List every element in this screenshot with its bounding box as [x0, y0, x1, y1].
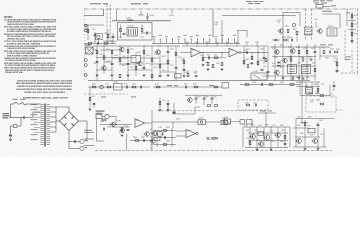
- svg-text:R115: R115: [322, 48, 326, 50]
- svg-text:100: 100: [308, 57, 312, 59]
- bottom of right block parts: [292, 77, 309, 80]
- svg-text:R510: R510: [124, 84, 128, 86]
- svg-text:LISTENING LEVEL USING VTVM DC: LISTENING LEVEL USING VTVM DC CIRCUIT BO…: [24, 91, 65, 94]
- dashed box mid lower: [238, 100, 268, 110]
- headphone jack boxes: [152, 118, 228, 129]
- left small branch under y87: [89, 87, 137, 111]
- vertical feed x302: [301, 66, 303, 124]
- svg-text:SIGNAL INPUT AND: SIGNAL INPUT AND: [5, 71, 23, 74]
- preamp rail low: [88, 80, 258, 82]
- preamp parts grid: [93, 45, 182, 76]
- svg-text:C18: C18: [160, 134, 164, 136]
- svg-text:C305: C305: [100, 121, 104, 123]
- svg-text:CONTROLS SET AT NORMAL LISTENI: CONTROLS SET AT NORMAL LISTENING LEVEL U…: [17, 79, 72, 82]
- svg-text:R22: R22: [166, 141, 170, 143]
- preamp rail top: [93, 45, 180, 47]
- svg-text:R115: R115: [192, 50, 196, 52]
- svg-text:47uF: 47uF: [176, 119, 180, 121]
- bridge rectifier D2: [60, 112, 79, 131]
- mid bottom small parts: [185, 70, 197, 77]
- output transistor Q7: [275, 50, 279, 54]
- muting transistor Q13: [188, 98, 192, 102]
- svg-text:R510: R510: [260, 60, 264, 62]
- output transistor Q9: [283, 58, 287, 62]
- warning paragraph text: [16, 79, 72, 94]
- svg-text:R22: R22: [184, 84, 188, 86]
- ac line input label: [3, 113, 10, 118]
- svg-text:R115: R115: [270, 131, 273, 133]
- svg-text:330: 330: [316, 100, 320, 102]
- right upper parts: [285, 23, 298, 42]
- board interface box: [305, 27, 313, 35]
- wire bridge output positive: [79, 121, 88, 142]
- svg-text:C18: C18: [303, 48, 307, 50]
- small parts under tuner: [104, 40, 117, 43]
- svg-text:C12: C12: [253, 103, 256, 105]
- board boundary dashed vertical left: [106, 5, 108, 43]
- svg-text:0.01: 0.01: [310, 135, 314, 137]
- protect dashed box right: [306, 96, 336, 112]
- board boundary dashed vertical right: [305, 9, 307, 40]
- op-amp U4: [176, 130, 198, 138]
- svg-text:47uF: 47uF: [162, 70, 166, 72]
- bottom board boundary dashed: [95, 150, 332, 152]
- op-amp U1: [191, 48, 201, 57]
- preamp rail mid: [96, 57, 136, 59]
- end tick x302: [300, 122, 308, 124]
- feed boxes mid: [240, 120, 252, 128]
- wire top feed bottom right: [258, 111, 276, 128]
- power amp lower cluster rails: [243, 127, 290, 148]
- wire y95 mid: [185, 94, 222, 96]
- svg-text:R22: R22: [285, 26, 289, 28]
- svg-text:R22: R22: [162, 56, 166, 58]
- op-amp U1 output wire: [201, 52, 230, 54]
- tuner left internal parts: [118, 25, 125, 39]
- bottom left lower parts: [130, 131, 163, 142]
- transformer T1 secondary winding: [47, 105, 50, 145]
- svg-text:OTHERWISE NOTED VALUES SHOWN W: OTHERWISE NOTED VALUES SHOWN WITH VOLTAG…: [17, 85, 72, 88]
- output jack labels top middle: [246, 1, 264, 4]
- svg-text:C41: C41: [333, 61, 337, 63]
- op-amp U2 output parts: [241, 50, 268, 65]
- feedback parts U1: [200, 52, 226, 71]
- wire fm line top: [112, 20, 171, 22]
- transistor Q20: [121, 129, 125, 133]
- svg-text:100: 100: [244, 125, 248, 127]
- dc output terminal E1: [80, 139, 88, 143]
- coupling caps trio: [195, 95, 217, 104]
- right upper loop wires: [277, 13, 300, 45]
- output block rails: [262, 47, 330, 76]
- feed box small left: [224, 117, 240, 124]
- protect box contents: [310, 100, 324, 105]
- svg-text:0.022: 0.022: [246, 130, 249, 132]
- svg-text:D103: D103: [299, 57, 303, 59]
- svg-text:47uF: 47uF: [354, 33, 358, 35]
- vertical feed wire: [212, 10, 214, 38]
- svg-text:C41: C41: [258, 125, 262, 127]
- svg-text:Q201: Q201: [272, 48, 276, 50]
- power amp verticals: [250, 127, 285, 148]
- svg-text:0.01: 0.01: [154, 67, 158, 69]
- svg-text:C18: C18: [128, 25, 134, 27]
- svg-text:C41: C41: [277, 22, 280, 24]
- svg-text:SL-3200: SL-3200: [207, 135, 219, 140]
- right upper bottom row parts: [272, 37, 294, 41]
- dashed interconnect line mid: [157, 110, 270, 112]
- svg-text:C305: C305: [319, 120, 323, 122]
- bias diode pair: [278, 61, 281, 67]
- preamp transistor Q1: [120, 47, 124, 51]
- output transistor Q10: [275, 70, 279, 74]
- output network cluster 2: [293, 117, 326, 151]
- tone cluster extra parts: [247, 46, 269, 78]
- svg-text:R115: R115: [166, 127, 170, 129]
- right upper wire and label: [314, 11, 340, 28]
- svg-text:R22: R22: [130, 67, 134, 69]
- svg-text:C305: C305: [249, 63, 252, 65]
- svg-text:C41: C41: [296, 77, 299, 79]
- svg-text:R401: R401: [181, 59, 184, 61]
- signal wire y87: [88, 86, 150, 88]
- svg-text:POWER SUPPLY AND DIAL LAMP CIR: POWER SUPPLY AND DIAL LAMP CIRCUIT: [23, 97, 69, 100]
- svg-text:IN OHMS K OHMS UNLESS OTHERWIS: IN OHMS K OHMS UNLESS OTHERWISE NOTED VA…: [7, 30, 51, 33]
- diode D1 surge: [9, 133, 12, 139]
- wire mid vertical x238: [237, 31, 239, 44]
- capacitor C3 trimmer: [147, 13, 154, 21]
- svg-text:C305: C305: [150, 15, 154, 17]
- corner wire mid: [237, 31, 247, 38]
- svg-text:Q201: Q201: [200, 55, 203, 57]
- power transistor Q18: [276, 133, 281, 138]
- driver box B2: [302, 65, 311, 74]
- svg-text:C305: C305: [297, 125, 301, 127]
- svg-text:330: 330: [92, 84, 96, 86]
- right upper transistor Q6: [318, 29, 322, 33]
- relay box: [305, 86, 313, 95]
- rails right upper y82: [296, 82, 325, 94]
- svg-text:0.022: 0.022: [92, 96, 96, 98]
- preamp hanging parts above low rail: [119, 74, 161, 77]
- power switch S1: [13, 99, 18, 104]
- parts row on y87 left: [92, 82, 142, 91]
- chassis dash-dot corner right: [346, 9, 348, 26]
- svg-text:R401: R401: [205, 97, 208, 99]
- svg-text:C41: C41: [246, 49, 250, 51]
- output block verticals: [275, 44, 315, 81]
- svg-text:C305: C305: [325, 58, 329, 60]
- svg-text:D103: D103: [287, 57, 291, 59]
- bottom left wires: [97, 110, 153, 151]
- svg-text:R115: R115: [288, 47, 292, 49]
- svg-text:330: 330: [254, 130, 257, 132]
- preamp transistor Q3: [156, 50, 160, 54]
- board boundary dashed vertical left2: [109, 5, 111, 43]
- meter amp cluster: [149, 127, 176, 147]
- chassis boundary dash-dot line top: [84, 8, 358, 10]
- svg-text:0.022: 0.022: [132, 84, 136, 86]
- fuse F1: [18, 99, 27, 105]
- dashed box mid contents: [245, 103, 257, 107]
- tuner block internals dark: [127, 25, 138, 36]
- svg-text:R510: R510: [274, 57, 278, 59]
- wire antenna input horizontal: [84, 10, 104, 16]
- rail y80.5 right extension: [258, 80, 310, 82]
- right dashed area lines: [333, 30, 358, 73]
- svg-text:47uF: 47uF: [113, 41, 117, 43]
- wire to transformer primary top: [27, 103, 41, 105]
- antenna terminal labels top left: [90, 3, 148, 4]
- wire ac hot: [11, 103, 15, 105]
- svg-text:R401: R401: [105, 33, 108, 35]
- right upper transistor Q5: [279, 29, 283, 33]
- svg-text:100: 100: [140, 37, 144, 39]
- svg-text:330: 330: [93, 50, 97, 52]
- capacitor C1 line filter: [21, 116, 27, 119]
- svg-text:100: 100: [312, 63, 316, 65]
- driver box B1: [288, 65, 297, 74]
- wire bridge output negative: [69, 131, 79, 149]
- svg-text:R401: R401: [122, 65, 126, 67]
- svg-text:0.022: 0.022: [311, 48, 315, 50]
- preamp vertical wires: [97, 46, 176, 81]
- svg-text:Q201: Q201: [251, 125, 255, 127]
- svg-text:0.01: 0.01: [130, 49, 134, 51]
- wire ac neutral vertical: [10, 104, 12, 118]
- right upper box2: [327, 26, 337, 36]
- output block parts: [272, 45, 316, 80]
- svg-text:D103: D103: [314, 19, 318, 21]
- right mid cluster: [320, 45, 340, 61]
- svg-text:0.022: 0.022: [170, 65, 174, 67]
- bottom right cluster parts: [244, 125, 286, 151]
- svg-text:TO CHASSIS GROUND WITH NO SIGN: TO CHASSIS GROUND WITH NO SIGNAL: [5, 59, 37, 62]
- svg-text:0.01: 0.01: [354, 15, 358, 17]
- function switch ladder rail: [152, 42, 240, 44]
- svg-text:R115: R115: [308, 117, 312, 119]
- svg-text:0.01: 0.01: [333, 58, 337, 60]
- svg-text:C12: C12: [92, 29, 96, 31]
- svg-text:330: 330: [300, 133, 304, 135]
- svg-text:R401: R401: [306, 77, 309, 79]
- svg-text:47uF: 47uF: [197, 97, 200, 99]
- tone control cluster: [243, 46, 265, 66]
- signal wire into U1: [180, 52, 191, 54]
- svg-text:C12: C12: [162, 100, 165, 102]
- tuner block internals right: [140, 25, 151, 39]
- svg-text:0.022: 0.022: [146, 63, 150, 65]
- op-amp U3: [135, 119, 152, 128]
- output transistor Q8: [291, 49, 295, 53]
- power transistor Q16: [251, 134, 256, 139]
- svg-text:R733: R733: [252, 82, 256, 84]
- svg-text:C41: C41: [307, 126, 311, 128]
- function switch contact ticks: [153, 35, 237, 44]
- dashed board edge bottom mid: [150, 128, 152, 151]
- wire under tuner: [84, 42, 116, 45]
- svg-text:D103: D103: [106, 61, 110, 63]
- transformer T1 primary winding: [40, 105, 43, 145]
- svg-text:330: 330: [137, 52, 141, 54]
- preamp horizontal jogs: [96, 50, 176, 72]
- svg-text:R510: R510: [280, 141, 283, 143]
- wire ac neutral: [9, 117, 21, 119]
- parts under caps trio: [204, 104, 218, 106]
- svg-text:D103: D103: [271, 141, 274, 143]
- thermal fuse TF1: [11, 125, 18, 133]
- wire secondary to bridge: [56, 120, 60, 122]
- wire primary bottom: [27, 112, 41, 118]
- svg-text:100: 100: [336, 49, 340, 51]
- svg-text:CHASSIS GROUND WITH NO SIGNAL: CHASSIS GROUND WITH NO SIGNAL: [7, 23, 34, 26]
- ground power supply input: [10, 139, 12, 140]
- notes paragraph text lines: [4, 18, 56, 74]
- board boundary dashed vertical right2: [311, 9, 313, 40]
- svg-text:0.01: 0.01: [119, 132, 123, 134]
- vertical feed x330: [329, 85, 331, 97]
- wire long rail upper right: [222, 15, 296, 17]
- speaker terminal block top right: [313, 0, 336, 8]
- svg-text:R733: R733: [282, 37, 285, 39]
- speaker wire right bottom: [326, 110, 344, 119]
- right edge small box preamp: [175, 74, 182, 79]
- svg-text:CHASSIS GROUND WITH NO SIGNAL: CHASSIS GROUND WITH NO SIGNAL INPUT AND …: [16, 88, 72, 91]
- wire drop top x116: [116, 10, 118, 21]
- mid small branch parts: [159, 98, 170, 111]
- svg-text:Q201: Q201: [263, 66, 266, 68]
- balance pot box: [251, 71, 267, 80]
- capacitor C2 filter: [68, 140, 79, 143]
- wire bridge top: [56, 107, 69, 112]
- mid feed verticals: [168, 103, 200, 115]
- node tick top: [171, 10, 173, 14]
- legend dashes left margin: [84, 130, 94, 146]
- dc output terminal E2: [79, 146, 88, 150]
- preamp transistor Q4: [102, 66, 106, 70]
- relay feed wire y84.5: [240, 82, 300, 86]
- svg-text:R733: R733: [245, 103, 248, 105]
- svg-text:C41: C41: [230, 50, 234, 52]
- transistor Q14: [111, 122, 115, 126]
- preamp transistor Q2: [138, 61, 142, 65]
- svg-text:0.022: 0.022: [93, 63, 97, 65]
- svg-text:R115: R115: [205, 62, 208, 64]
- transformer tap labels: [31, 104, 38, 140]
- right board boundary dashed vertical: [357, 9, 359, 75]
- right margin cross marks: [332, 81, 335, 100]
- parts row y87 right: [153, 84, 222, 89]
- input connector block left edge: [84, 10, 93, 80]
- parts below U1 left: [181, 57, 186, 77]
- transformer tap leads: [34, 108, 40, 133]
- coil L1: [126, 18, 133, 21]
- mid rail ticks top: [182, 42, 268, 46]
- right edge electrolytic chain: [346, 12, 358, 44]
- svg-text:C12: C12: [124, 126, 128, 128]
- svg-text:PARTS ARE MARKED ALL RESISTORS: PARTS ARE MARKED ALL RESISTORS ARE IN OH…: [16, 82, 72, 85]
- svg-text:47uF: 47uF: [281, 130, 284, 132]
- svg-text:100: 100: [213, 97, 216, 99]
- dashed line y94 left: [84, 93, 128, 95]
- bottom left parts: [100, 119, 129, 136]
- svg-text:CHASSIS GROUND WITH NO SIGNAL: CHASSIS GROUND WITH NO SIGNAL: [7, 47, 35, 50]
- wire switch leg: [17, 118, 21, 127]
- preamp block small box: [131, 56, 141, 63]
- svg-text:R22: R22: [105, 41, 109, 43]
- wire mid vertical x222: [221, 20, 223, 43]
- svg-text:R401: R401: [280, 125, 284, 127]
- svg-text:R510: R510: [328, 26, 333, 28]
- svg-text:Q201: Q201: [105, 84, 109, 86]
- tuner block outline: [118, 23, 153, 41]
- top mid tick small: [139, 11, 144, 15]
- secondary tap wires: [50, 107, 56, 132]
- op-amp U2: [229, 48, 241, 57]
- phono input cluster: [96, 111, 117, 119]
- wire y95 right parts: [300, 93, 330, 97]
- transformer T1 core: [45, 104, 46, 147]
- svg-text:R115: R115: [193, 84, 197, 86]
- svg-text:D103: D103: [257, 140, 260, 142]
- meter driver transistor Q15: [145, 132, 149, 136]
- svg-text:C41: C41: [272, 125, 276, 127]
- power transistor Q17: [264, 135, 270, 141]
- left small parts column A: [84, 25, 114, 43]
- small box left of relay row: [222, 83, 229, 89]
- svg-text:0.022: 0.022: [297, 117, 301, 119]
- power transistor Q19: [259, 142, 263, 146]
- svg-text:Q201: Q201: [170, 49, 174, 51]
